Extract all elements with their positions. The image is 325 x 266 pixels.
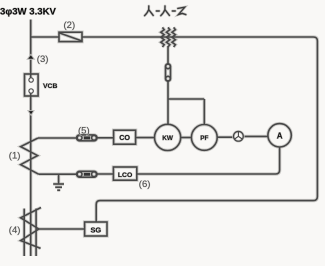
svg-text:(3): (3) xyxy=(37,54,49,65)
svg-text:A: A xyxy=(277,131,283,140)
svg-text:CO: CO xyxy=(119,133,130,142)
svg-text:VCB: VCB xyxy=(43,83,57,90)
svg-text:SG: SG xyxy=(90,225,101,234)
svg-text:(4): (4) xyxy=(9,225,21,236)
svg-text:LCO: LCO xyxy=(118,172,132,179)
svg-text:(6): (6) xyxy=(139,179,151,190)
svg-text:3φ3W 3.3KV: 3φ3W 3.3KV xyxy=(0,6,57,17)
svg-text:PF: PF xyxy=(200,135,208,142)
svg-text:(5): (5) xyxy=(78,126,90,137)
svg-text:(1): (1) xyxy=(9,151,21,162)
svg-text:(2): (2) xyxy=(64,20,76,31)
svg-text:KW: KW xyxy=(162,135,174,142)
